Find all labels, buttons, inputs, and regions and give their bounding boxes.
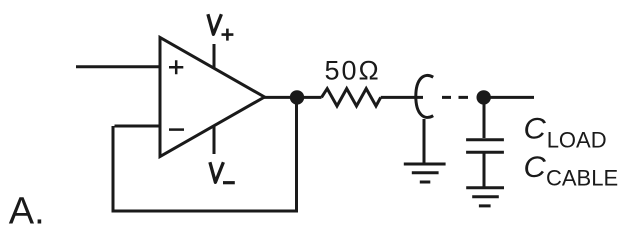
label V- minus subscript	[223, 181, 235, 184]
wire: V+ supply	[213, 44, 216, 69]
wire: output right	[490, 96, 534, 99]
wire: connector ground stub	[423, 119, 426, 164]
wire: op-amp output	[264, 96, 322, 99]
svg-text:50Ω: 50Ω	[325, 56, 381, 86]
wire: node to capacitor	[483, 97, 486, 138]
label V+ plus subscript	[222, 29, 234, 41]
node 1: op-amp output junction	[290, 90, 304, 104]
svg-text:CABLE: CABLE	[546, 166, 618, 191]
svg-text:LOAD: LOAD	[547, 127, 607, 152]
wire: dashed cable segment	[442, 96, 468, 99]
label V+	[208, 14, 222, 34]
svg-text:C: C	[524, 113, 547, 146]
wire: capacitor to ground	[483, 154, 486, 188]
node 2: load junction	[477, 90, 491, 104]
ground (capacitor)	[466, 188, 504, 206]
op-amp plus input symbol	[169, 60, 183, 74]
label V-	[210, 162, 224, 182]
wire: feedback loop	[113, 97, 297, 211]
capacitor C1 plates	[466, 140, 504, 153]
op-amp U1	[160, 38, 265, 157]
wire: V- supply	[213, 125, 216, 154]
wire: resistor to connector	[381, 96, 423, 99]
coax connector symbol	[416, 75, 433, 117]
resistor R1 50ohm	[322, 89, 381, 106]
svg-text:A.: A.	[9, 191, 45, 233]
op-amp minus input symbol	[169, 128, 184, 131]
wire: non-inverting input	[76, 65, 159, 68]
wire: inverting input	[115, 125, 160, 128]
ground (connector)	[404, 164, 446, 182]
svg-text:C: C	[524, 151, 547, 184]
